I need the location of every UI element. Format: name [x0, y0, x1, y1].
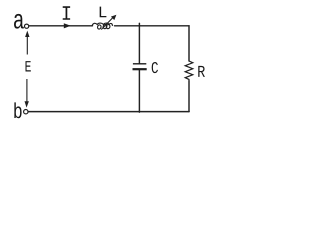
label a: [14, 14, 24, 29]
variable-inductor arrow: [101, 17, 113, 29]
wire top-right segment (inductor to corner): [115, 25, 190, 27]
capacitor C plates: [133, 64, 147, 69]
wire right side (resistor to bottom corner): [188, 81, 190, 112]
inductor L (variable, loop style): [92, 23, 112, 29]
wire right side (corner to resistor): [188, 26, 190, 61]
node a terminal: [25, 24, 29, 28]
label I: [63, 6, 70, 20]
label b: [14, 102, 21, 118]
wire top-left segment (a to inductor): [29, 25, 93, 27]
current arrow I: [64, 23, 71, 28]
label L: [100, 7, 107, 18]
wire bottom: [28, 111, 189, 113]
label R: [198, 66, 205, 77]
node b terminal: [24, 110, 28, 114]
label E: [25, 61, 30, 71]
wire capacitor branch bottom: [138, 70, 140, 112]
wire capacitor branch top: [138, 23, 140, 63]
voltage arrow down toward b: [26, 79, 28, 103]
resistor R zigzag: [185, 61, 193, 81]
label C: [152, 62, 158, 73]
voltage arrow up toward a: [26, 35, 28, 55]
